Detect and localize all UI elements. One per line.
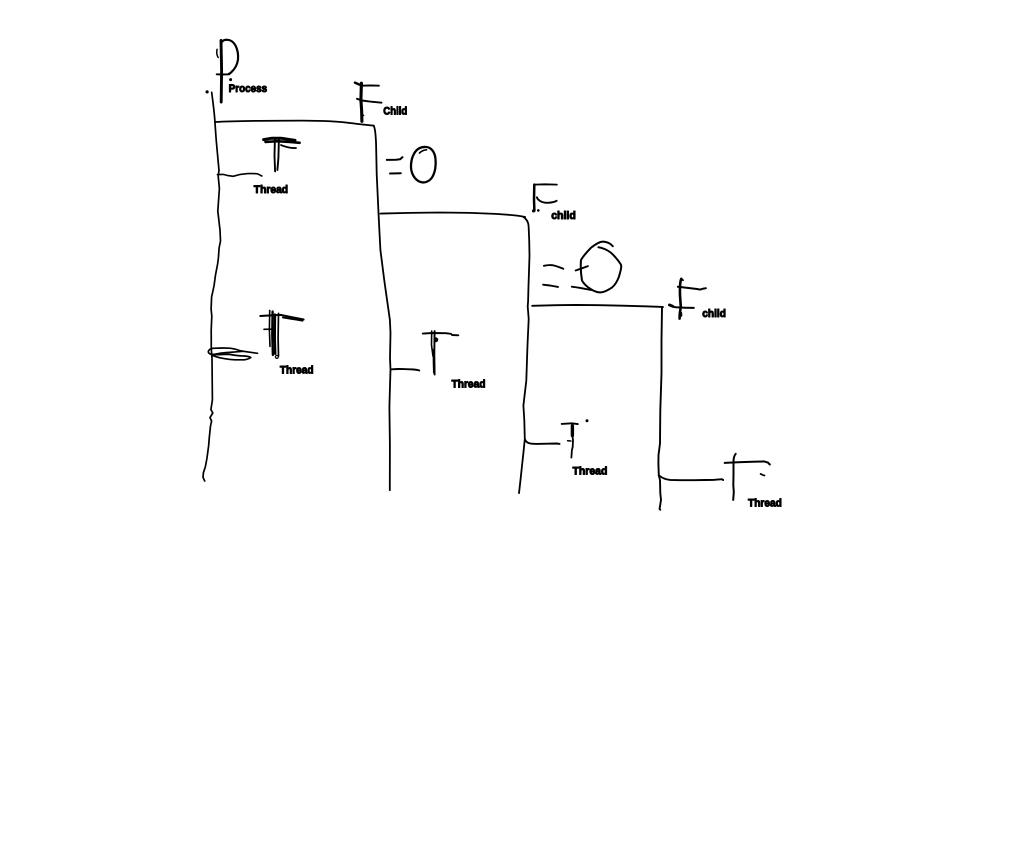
- wire: lane 3 top horizontal: [532, 305, 663, 307]
- thread 1 T glyph crossbar (thick scribble): [264, 138, 295, 140]
- lane 2 thread T glyph crossbar with right step: [423, 333, 459, 335]
- svg-text:Thread: Thread: [280, 364, 314, 376]
- child 1 F glyph top-left tick: [355, 83, 360, 85]
- child 3 F glyph middle horizontal start blob: [669, 305, 672, 306]
- lane 3 thread T glyph vertical stroke: [571, 424, 573, 458]
- child 1 F glyph middle horizontal: [357, 99, 382, 103]
- thread 2 T glyph small left tick: [264, 328, 271, 330]
- svg-text:child: child: [702, 308, 726, 320]
- svg-text:Thread: Thread: [573, 465, 608, 477]
- process P glyph closing crossbar tick: [217, 73, 230, 75]
- small dash right of lane 4 thread T: [761, 474, 765, 476]
- lane 3 thread T glyph thick mid blob: [571, 426, 574, 436]
- child 2 gamma glyph vertical stroke: [533, 185, 536, 211]
- svg-text:Thread: Thread: [748, 498, 782, 510]
- O circle of "=O" symbol 2 bottom-left tail: [572, 287, 591, 290]
- child 1 F glyph vertical stroke: [361, 83, 362, 121]
- process P glyph vertical stroke: [220, 41, 224, 103]
- dot left of process box corner: [206, 91, 208, 93]
- lane 2 thread T glyph vertical stroke b: [433, 331, 435, 374]
- process P glyph left hook: [217, 49, 218, 57]
- thread 2 ellipse scribble upper loop return edge: [208, 348, 243, 354]
- child 2 gamma glyph top horizontal: [534, 183, 557, 185]
- child 3 F glyph lower vertical blob: [680, 313, 683, 316]
- lane 4 thread T glyph vertical stroke: [733, 454, 736, 500]
- wire: thread 1 tick on lane 1: [217, 174, 261, 177]
- child 1 F glyph right protrusion on lower vertical: [362, 114, 363, 116]
- wire: lane 2 top horizontal: [380, 213, 525, 218]
- thread 2 T glyph vertical strokes: [268, 310, 271, 346]
- svg-text:child: child: [551, 210, 576, 222]
- O circle of "=O" symbol 2 spiral loop: [581, 242, 621, 293]
- svg-text:Process: Process: [229, 83, 268, 95]
- wire: lane 4 thread tick: [659, 475, 723, 480]
- process P glyph loop: [222, 40, 239, 74]
- lane 2 thread T glyph vertical stroke a: [432, 331, 434, 356]
- lane 3 thread T glyph crossbar: [562, 422, 578, 425]
- wire: lane 1 left vertical: [203, 92, 221, 481]
- child 3 F glyph vertical stroke: [680, 279, 682, 319]
- wire: lane 3 vertical: [519, 217, 530, 493]
- equals dash 2 of "=O" symbol 2: [543, 285, 558, 287]
- lane 2 thread T glyph vertical stroke c (thick lower): [433, 350, 436, 373]
- child 2 gamma glyph bottom foot blob: [532, 209, 535, 212]
- lane 2 thread T glyph knot loop: [434, 338, 437, 341]
- equals dash 1 of "=O" symbol 1: [387, 157, 403, 160]
- svg-text:Thread: Thread: [452, 379, 486, 391]
- equals dash 2 of "=O" symbol 1: [390, 172, 401, 174]
- O oval of "=O" symbol 1 top-left overlap stroke: [420, 150, 427, 153]
- wire: lane 1 top horizontal: [215, 121, 374, 126]
- small dash crossing circle of "=O" symbol 2: [576, 266, 588, 270]
- thread 2 ellipse scribble lower loop: [212, 354, 250, 360]
- svg-text:Child: Child: [383, 106, 407, 118]
- thread 2 T glyph bottom tiny loop: [275, 355, 278, 358]
- thread 2 ellipse scribble upper loop top edge and tail: [213, 348, 258, 353]
- wire: lane 4 vertical: [658, 307, 662, 510]
- O oval of "=O" symbol 1: [411, 147, 436, 182]
- svg-text:Thread: Thread: [254, 184, 288, 196]
- child 3 F glyph top hook tick: [682, 279, 684, 282]
- dot right of lane 3 thread T: [586, 420, 588, 422]
- equals dash 1 of "=O" symbol 2: [544, 265, 563, 269]
- thread 2 ellipse scribble crossing knot: [211, 354, 214, 357]
- wire: lane 2 vertical: [374, 126, 391, 490]
- dot under P loop: [230, 79, 232, 81]
- thread 2 T glyph crossbar doubled lower stroke: [283, 317, 303, 320]
- lane 3 thread T glyph small left tick: [568, 440, 571, 442]
- child 2 gamma glyph curved hook: [537, 197, 557, 203]
- thread 1 T glyph vertical strokes: [274, 139, 277, 172]
- wire: lane 3 thread tick: [525, 439, 560, 444]
- lane 4 thread T glyph crossbar with end hook: [725, 461, 770, 464]
- child 3 F glyph middle horizontal: [669, 305, 693, 308]
- thread 2 T glyph crossbar: [260, 315, 303, 320]
- child 2 glyph bottom dot: [538, 210, 540, 212]
- wire: lane 2 thread tick: [392, 369, 420, 371]
- lane 2 thread T glyph knot fill: [434, 339, 436, 341]
- child 3 F glyph top horizontal with end tick: [678, 287, 706, 290]
- child 1 F glyph top horizontal: [362, 84, 379, 86]
- thread 1 T glyph lower sloped stroke: [281, 145, 296, 148]
- thread 1 T glyph crossbar lower overlapping stroke: [266, 141, 300, 143]
